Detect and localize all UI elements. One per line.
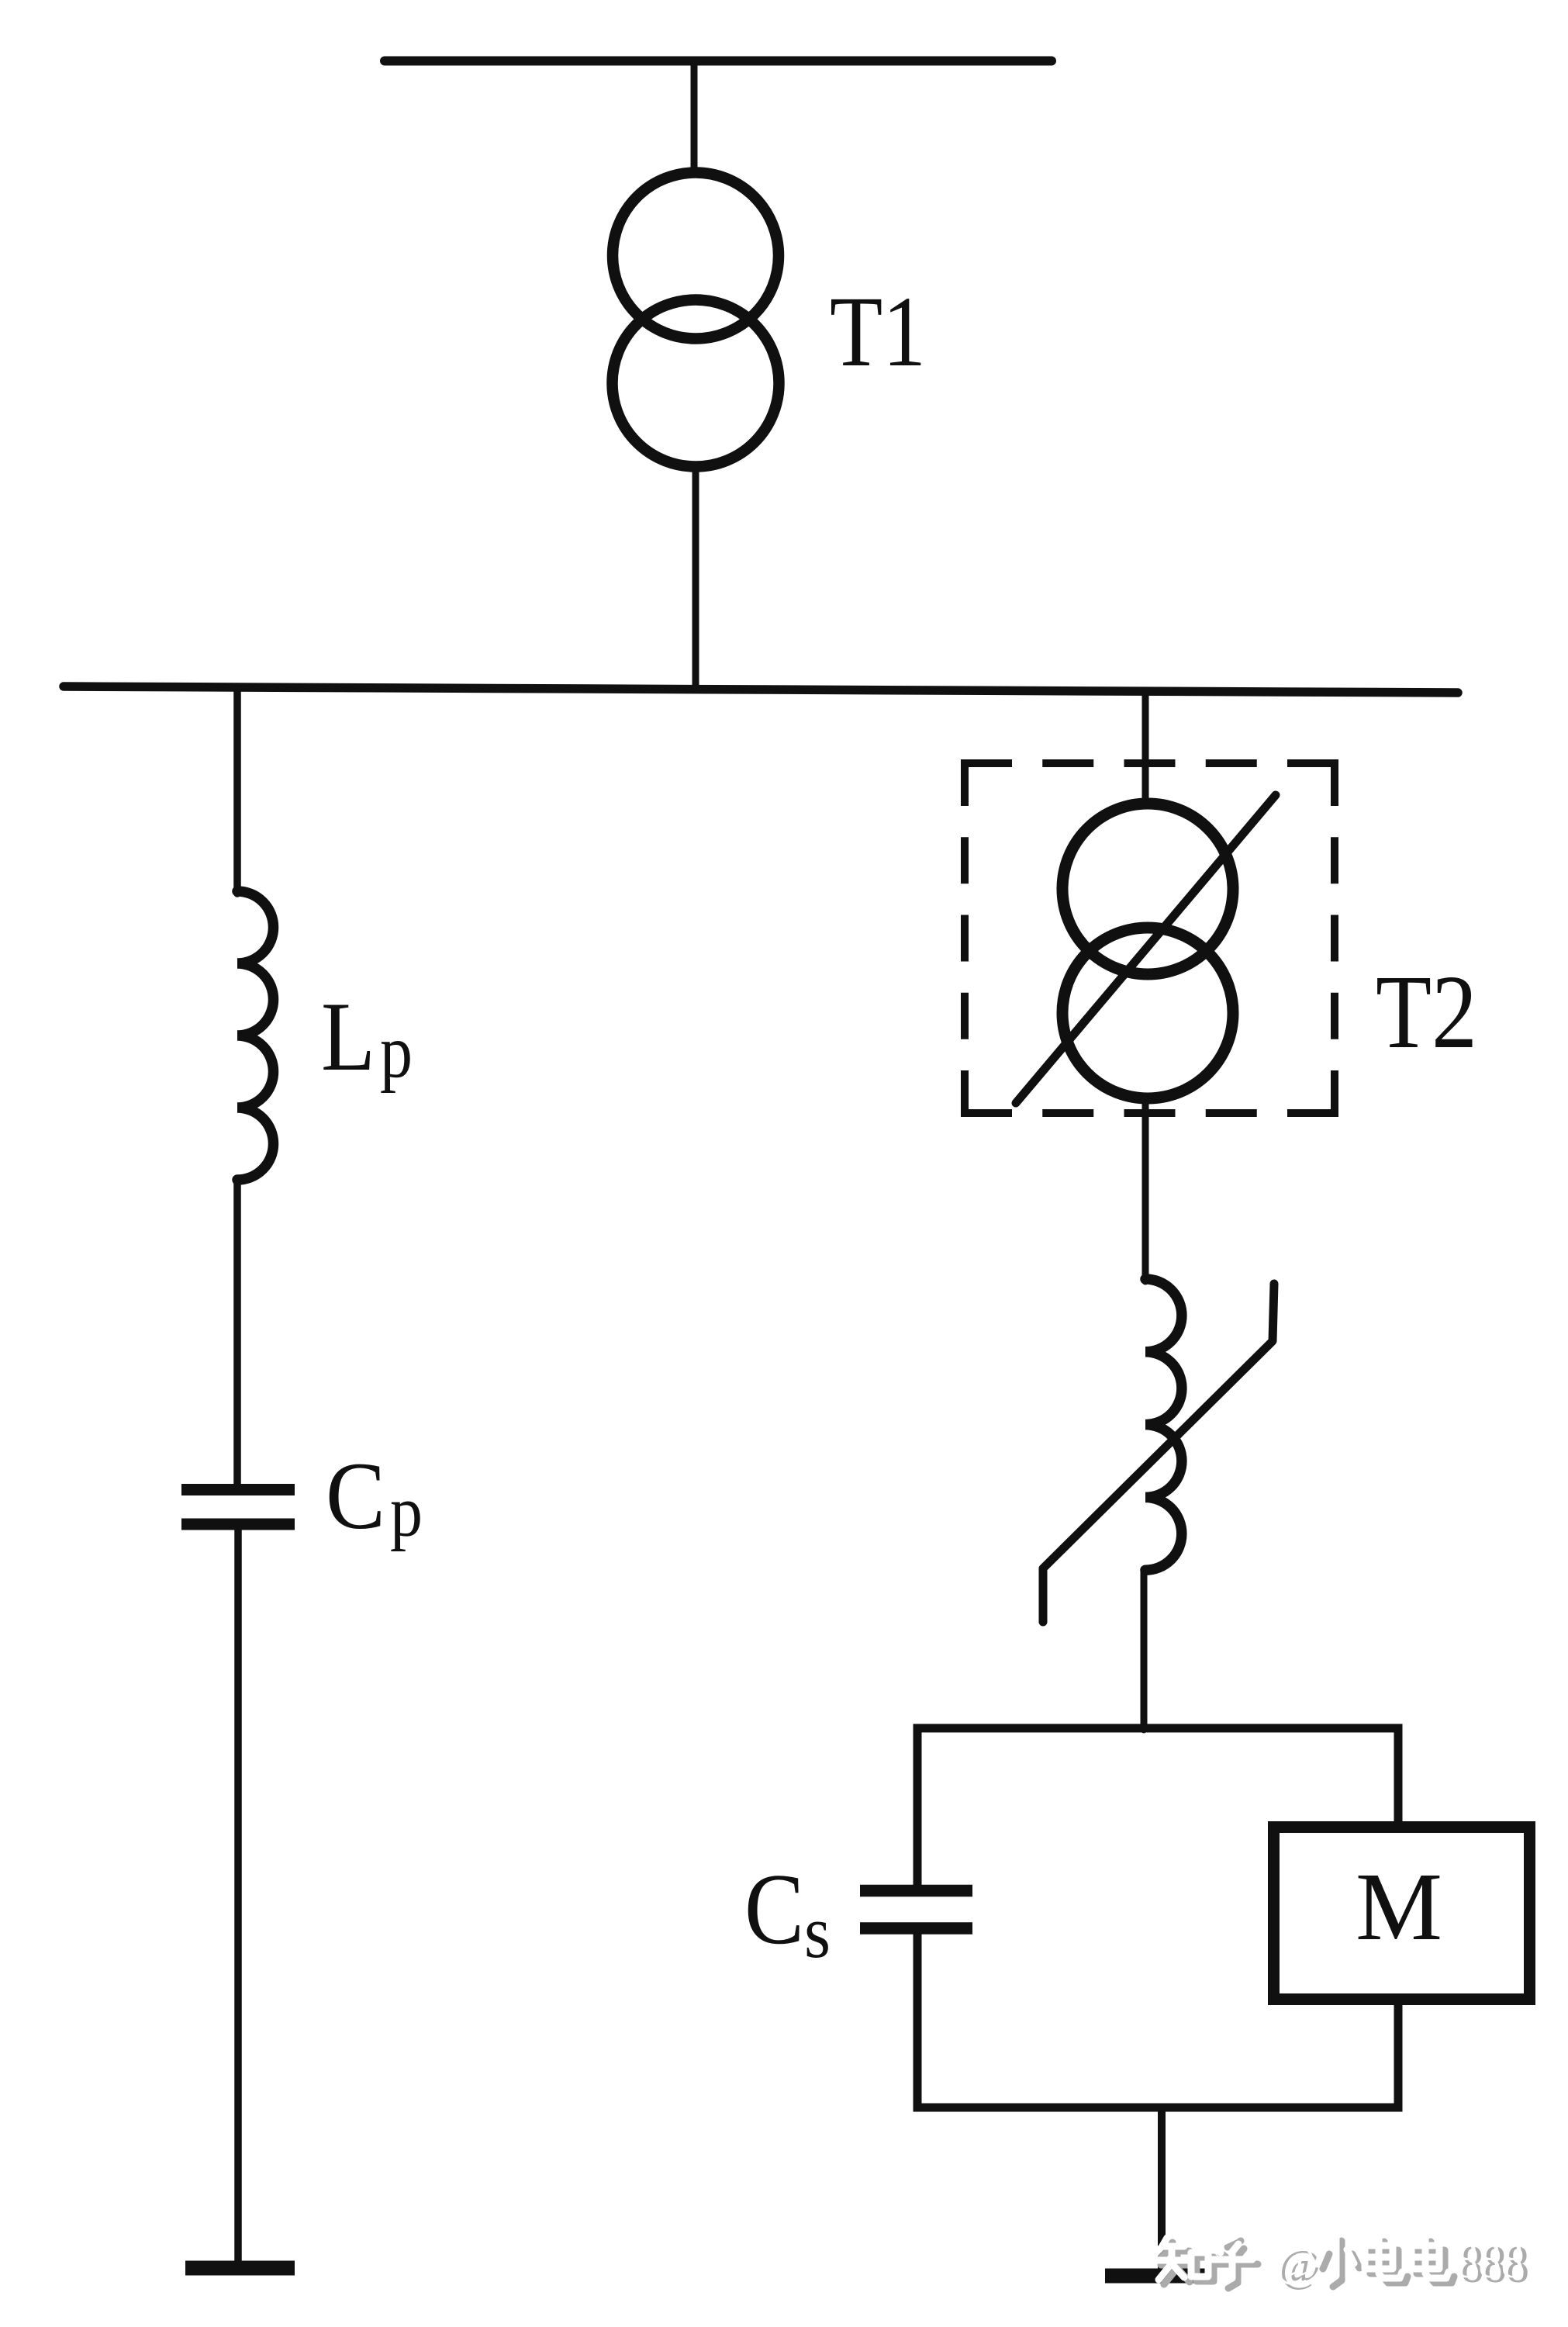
svg-text:p: p: [390, 1471, 423, 1552]
inductor Lp: [237, 891, 274, 1180]
wire B2 to T2: [1142, 691, 1149, 805]
capacitor Cp: [181, 1490, 295, 1525]
parallel loop wiring (top + upper sides): [917, 1728, 1398, 1886]
bus bar B2: [64, 686, 1458, 693]
wire B2 to Lp: [233, 690, 241, 894]
svg-text:p: p: [380, 1010, 413, 1094]
transformer T2 (variable): [1062, 804, 1233, 1098]
inductor Ls (variable): [1145, 1279, 1182, 1570]
label Lp: [321, 983, 413, 1094]
ground (right): [1105, 2269, 1217, 2284]
wire block to ground: [1158, 2107, 1166, 2270]
wire Lp to Cp: [233, 1180, 241, 1485]
svg-text:C: C: [326, 1443, 385, 1549]
svg-text:M: M: [1356, 1854, 1442, 1961]
wire Ls to parallel block: [1141, 1570, 1148, 1730]
ground (left): [185, 2261, 295, 2276]
svg-text:s: s: [804, 1890, 831, 1973]
svg-text:C: C: [744, 1853, 804, 1966]
capacitor Cs: [860, 1891, 972, 1929]
svg-text:T2: T2: [1376, 954, 1477, 1070]
wire B1 to T1: [691, 62, 698, 175]
parallel loop wiring (bottom + lower sides): [917, 1933, 1398, 2107]
Ls adjustment stroke: [1043, 1284, 1274, 1622]
dashed enclosure around T2: [961, 759, 1338, 1117]
label Cs: [744, 1853, 831, 1973]
transformer T1: [613, 173, 779, 467]
T2 adjustment stroke: [1016, 795, 1276, 1103]
wire Cp to ground: [234, 1530, 242, 2260]
svg-text:L: L: [321, 983, 375, 1091]
wire T1 to bus B2: [692, 467, 699, 689]
bus bar B1 (top): [385, 57, 1052, 66]
motor M (box): [1274, 1827, 1530, 2000]
wire T2 to Ls: [1142, 1101, 1149, 1281]
label Cp: [326, 1443, 423, 1552]
svg-text:T1: T1: [830, 276, 926, 388]
